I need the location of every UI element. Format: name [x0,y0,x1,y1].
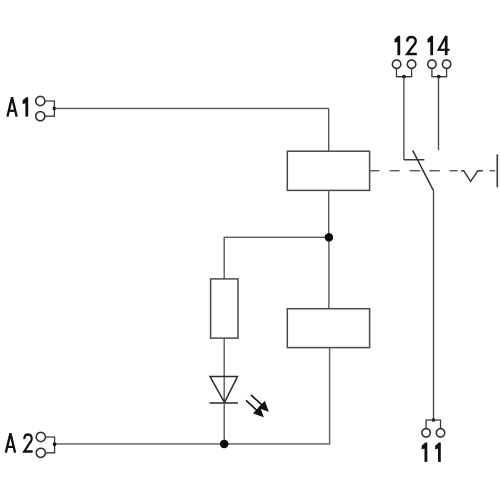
terminal 11 clamp circle left [422,429,431,438]
terminal 12 clamp circle right [407,60,416,69]
LED D1 cathode bar [210,402,239,404]
terminal A2 clamp circle lower [36,448,45,457]
wire resistor to LED [223,338,225,403]
wire lower box to A2 line [55,348,330,444]
actuation link notch (test button) [461,171,483,182]
lower box (free-wheel diode module) [287,309,369,348]
terminal 14 label [428,36,450,55]
terminal 12 label [395,36,417,55]
LED emission arrow 2 [246,400,263,416]
terminal 12 bracket [397,69,412,77]
terminal A1 clamp circle lower [36,112,45,121]
terminal A1 label [7,97,28,116]
terminal 11 bracket [426,420,440,429]
actuation link end bar [496,154,498,187]
resistor R1 [211,279,238,338]
terminal 12 clamp circle left [392,60,401,69]
relay coil K1 [287,151,369,190]
terminal 11 clamp circle right [436,429,445,438]
wire LED to bottom junction [223,403,225,444]
wire junction down to lower box [328,237,330,308]
node junction dot upper [325,233,334,242]
terminal 14 junction dot [437,75,441,79]
terminal 14 clamp circle right [442,60,451,69]
contact blade (changeover) [413,151,434,191]
wire 12 down [403,77,405,160]
wire blade down to terminal 11 [433,191,435,421]
actuation link final dash [490,170,495,172]
wire coil bottom to junction [328,190,330,237]
terminal A1 junction dot [53,107,57,111]
wire junction to resistor branch [224,237,329,279]
terminal 12 junction dot [402,75,406,79]
terminal 14 bracket [432,69,447,77]
wire A1 down to coil [328,108,330,151]
LED emission arrow 1 [251,395,268,411]
LED D1 triangle [210,377,238,403]
terminal 11 label [422,443,441,462]
actuation dashed link from coil [370,170,458,172]
wire A1 horizontal [54,107,328,109]
terminal A2 clamp circle upper [36,432,45,441]
terminal A2 label [6,434,33,453]
terminal A1 bracket [45,101,54,116]
terminal A2 junction dot [53,442,57,446]
terminal A1 clamp circle upper [36,96,45,105]
node junction dot lower [220,440,229,449]
wire 14 down (NO fixed contact) [438,77,440,151]
terminal A2 bracket [46,437,55,453]
contact 12 fixed foot [404,159,425,161]
terminal 14 clamp circle left [428,60,437,69]
terminal 11 junction dot [432,418,436,422]
